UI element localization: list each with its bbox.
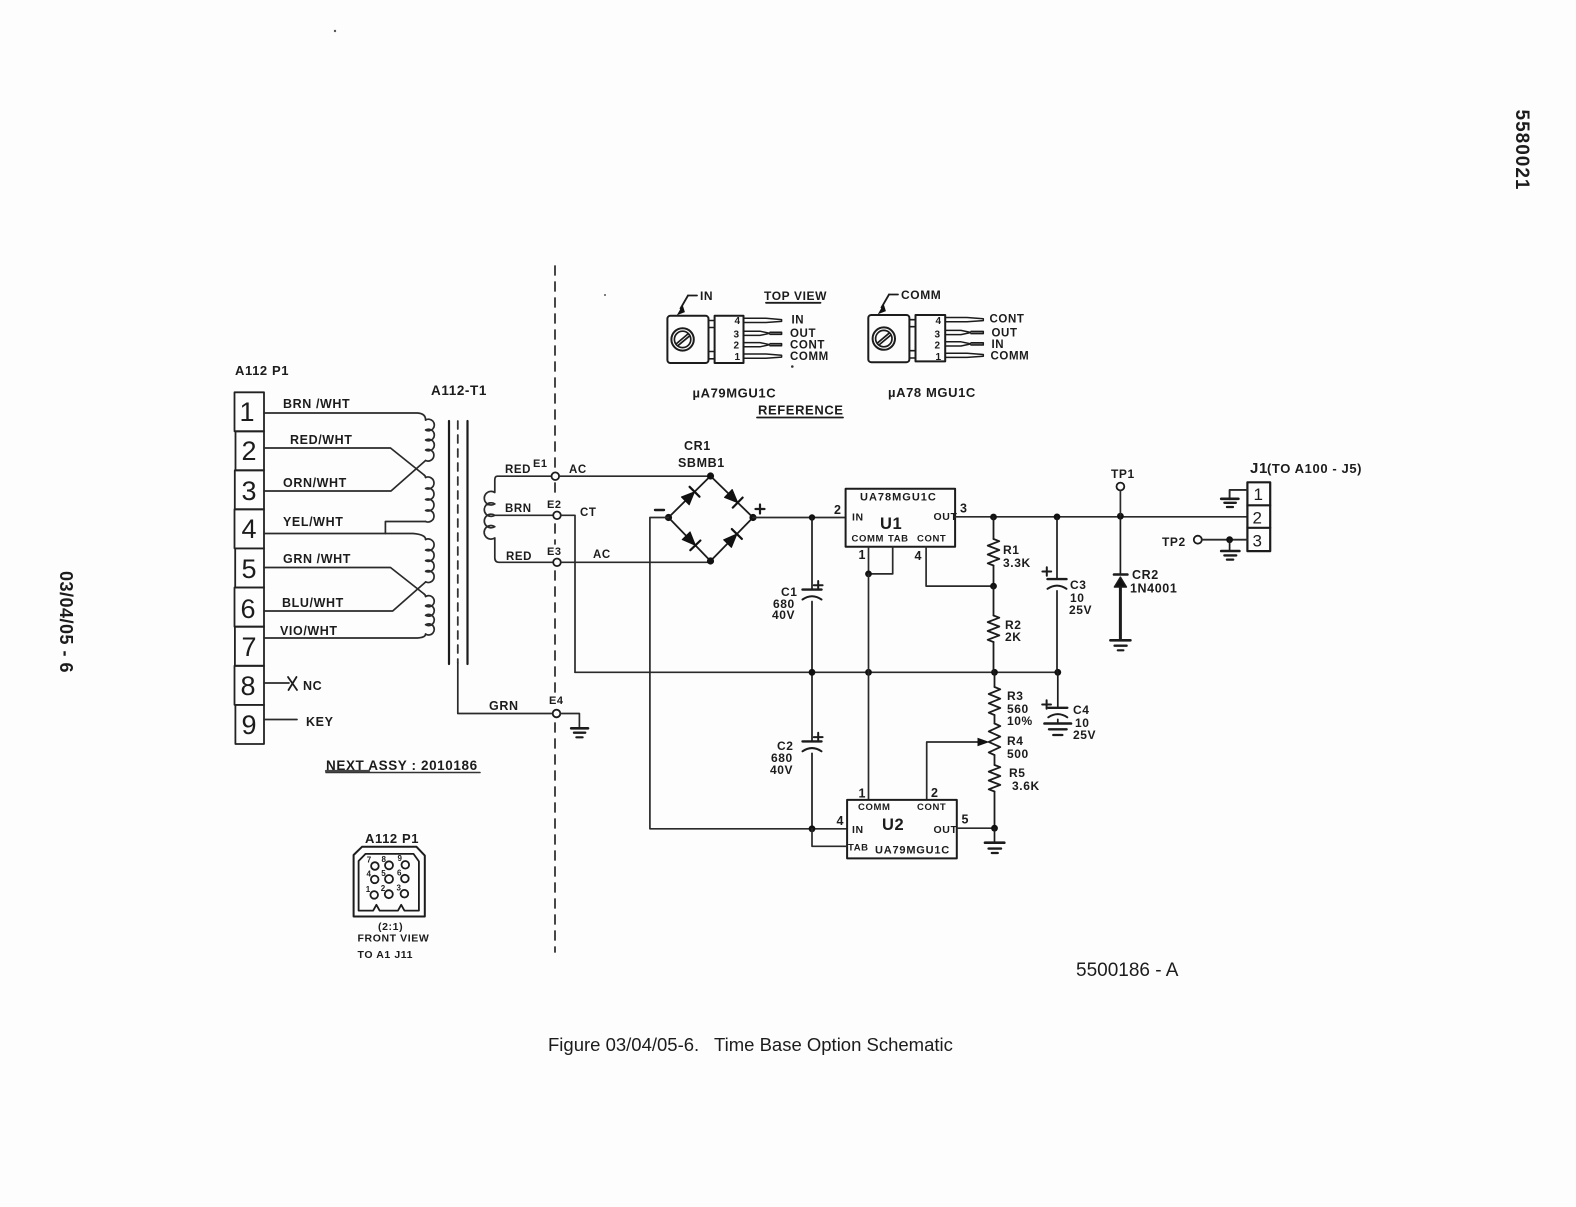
svg-text:VIO/WHT: VIO/WHT bbox=[280, 624, 338, 638]
transformer T1 core dashed shield line bbox=[457, 421, 459, 663]
svg-text:5500186 - A: 5500186 - A bbox=[1076, 960, 1179, 981]
svg-text:TO A1 J11: TO A1 J11 bbox=[358, 949, 414, 961]
svg-text:µA78 MGU1C: µA78 MGU1C bbox=[888, 385, 976, 400]
svg-text:500: 500 bbox=[1007, 747, 1029, 761]
svg-text:1: 1 bbox=[859, 548, 867, 562]
label RED/WHT bbox=[290, 433, 353, 447]
junction dots on output rail bbox=[990, 513, 1124, 521]
svg-text:6: 6 bbox=[240, 594, 255, 624]
svg-text:R4: R4 bbox=[1007, 734, 1024, 748]
svg-text:3.6K: 3.6K bbox=[1012, 779, 1040, 793]
wire transformer shield GRN to E4 bbox=[458, 663, 553, 714]
svg-text:NC: NC bbox=[303, 679, 322, 693]
test point TP2 bbox=[1194, 536, 1202, 544]
terminal E3 bbox=[553, 559, 561, 567]
junction dot U1 COMM/TAB bbox=[865, 571, 872, 578]
U2 pin number 5 bbox=[962, 813, 970, 827]
uA79 pin 1 (COMM) blade bbox=[744, 354, 782, 358]
svg-text:E4: E4 bbox=[549, 695, 564, 707]
svg-text:OUT: OUT bbox=[992, 328, 1018, 340]
TO-220 package uA78MGU1C: COMM callout bbox=[878, 288, 942, 314]
svg-text:J1: J1 bbox=[1250, 460, 1268, 477]
terminal E4 bbox=[553, 710, 561, 718]
svg-text:1: 1 bbox=[1254, 485, 1264, 504]
wire pin9 stub KEY bbox=[264, 719, 297, 721]
svg-text:1N4001: 1N4001 bbox=[1130, 582, 1177, 596]
bridge CR1 diode upper-left bbox=[681, 487, 699, 505]
R4 wiper arrow from U2 CONT bbox=[927, 742, 979, 800]
wire J1 pin 1 to ground bbox=[1230, 490, 1248, 499]
U2 TAB tie wire bbox=[812, 829, 847, 847]
svg-text:U1: U1 bbox=[880, 515, 902, 533]
minus sign at bridge bbox=[655, 509, 664, 511]
svg-text:C4: C4 bbox=[1073, 703, 1090, 717]
ground at CR2 bbox=[1110, 640, 1130, 650]
svg-text:YEL/WHT: YEL/WHT bbox=[283, 515, 343, 529]
svg-text:IN: IN bbox=[992, 339, 1005, 351]
svg-text:CONT: CONT bbox=[917, 534, 946, 545]
svg-text:3: 3 bbox=[241, 476, 256, 506]
ground at J1 pin 3 bbox=[1221, 540, 1239, 560]
label BRN (E2 lead) bbox=[505, 503, 532, 515]
label (2:1) bbox=[378, 921, 403, 933]
svg-text:OUT: OUT bbox=[934, 824, 958, 836]
wire secondary top RED to E1 bbox=[498, 475, 552, 477]
wire pin1 BRN/WHT to transformer primary winding 1 top bbox=[264, 413, 426, 420]
connector J1 body bbox=[1247, 482, 1270, 551]
no-connect X mark pin8 bbox=[288, 677, 297, 690]
capacitor C2 bbox=[803, 672, 823, 829]
transformer T1 core right line bbox=[466, 421, 468, 664]
label GRN bbox=[489, 699, 519, 713]
svg-text:CT: CT bbox=[580, 507, 597, 519]
svg-text:1: 1 bbox=[859, 787, 867, 801]
svg-text:UA78MGU1C: UA78MGU1C bbox=[860, 492, 937, 504]
label uA78MGU1C bbox=[888, 385, 976, 400]
transformer T1 primary winding 2 bbox=[426, 477, 434, 522]
transformer T1 core left line bbox=[448, 421, 450, 664]
uA79 pin 4 (IN) blade bbox=[744, 318, 782, 322]
svg-text:8: 8 bbox=[240, 671, 255, 701]
wire bridge plus node to U1 IN (DC rail) bbox=[753, 517, 846, 519]
svg-text:TP1: TP1 bbox=[1111, 467, 1135, 481]
svg-text:CR1: CR1 bbox=[684, 439, 711, 453]
svg-text:5: 5 bbox=[241, 554, 256, 584]
svg-text:GRN: GRN bbox=[489, 699, 519, 713]
svg-text:4: 4 bbox=[735, 316, 741, 327]
svg-text:E1: E1 bbox=[533, 458, 548, 470]
svg-text:25V: 25V bbox=[1069, 603, 1092, 617]
wire secondary center tap BRN to E2 bbox=[495, 514, 553, 516]
svg-text:CONT: CONT bbox=[990, 314, 1025, 326]
svg-text:2: 2 bbox=[241, 436, 256, 466]
label ORN/WHT bbox=[283, 476, 347, 490]
uA79 tab with screw hole bbox=[667, 316, 708, 363]
label NEXT ASSY : 2010186 (underlined) bbox=[326, 758, 480, 773]
uA79 pin 3 (OUT) blade bbox=[744, 331, 782, 335]
svg-text:1: 1 bbox=[735, 352, 741, 363]
uA78 pin 2 (IN) blade bbox=[945, 342, 983, 346]
wire pin5 GRN/WHT with diagonal to winding 4 top bbox=[264, 568, 426, 597]
uA78 body bbox=[916, 315, 946, 361]
diode CR2 1N4001 bbox=[1114, 516, 1127, 639]
svg-text:(2:1): (2:1) bbox=[378, 921, 403, 933]
wire U1 COMM down to U2 COMM (pin 1) bbox=[868, 574, 870, 800]
resistor R4 500 (pot) bbox=[989, 715, 1001, 755]
svg-text:UA79MGU1C: UA79MGU1C bbox=[875, 845, 950, 857]
ground at J1 pin 1 bbox=[1221, 499, 1238, 507]
wire bridge minus node down to U2 IN bbox=[650, 518, 847, 829]
wire secondary bottom RED to E3 bbox=[499, 561, 553, 563]
label E2 bbox=[547, 499, 562, 511]
wire pin3 ORN/WHT with diagonal to winding 1 bottom bbox=[264, 461, 426, 492]
svg-text:7: 7 bbox=[367, 856, 372, 865]
U1 pin number 2 bbox=[834, 503, 842, 517]
svg-text:3.3K: 3.3K bbox=[1003, 556, 1031, 570]
stray dot below uA79 pins bbox=[791, 365, 794, 368]
label E3 bbox=[547, 546, 562, 558]
svg-text:A112 P1: A112 P1 bbox=[365, 831, 419, 846]
TO-220 package uA79MGU1C: IN callout bbox=[677, 289, 713, 315]
label REFERENCE (underlined) bbox=[757, 403, 844, 418]
transformer T1 winding3 top corner from center tap bbox=[385, 534, 425, 540]
svg-text:TAB: TAB bbox=[848, 843, 869, 854]
junction dot R1/R2/CONT bbox=[990, 583, 997, 590]
svg-text:3: 3 bbox=[935, 329, 941, 340]
bridge rectifier CR1 diamond bbox=[669, 476, 754, 561]
svg-text:SBMB1: SBMB1 bbox=[678, 456, 725, 470]
junction dot U2 IN / C2 bottom bbox=[809, 825, 816, 832]
label TO A1 J11 bbox=[358, 949, 414, 961]
svg-text:4: 4 bbox=[936, 316, 942, 327]
svg-text:A112-T1: A112-T1 bbox=[431, 383, 487, 398]
U2 designator bbox=[882, 816, 904, 834]
uA79 pin labels bbox=[790, 315, 829, 364]
label BLU/WHT bbox=[282, 596, 344, 610]
svg-text:Figure 03/04/05-6.: Figure 03/04/05-6. bbox=[548, 1034, 699, 1055]
svg-text:40V: 40V bbox=[772, 608, 795, 622]
connector J1 label bbox=[1250, 460, 1362, 477]
U1 CONT pin 4 wire to R1/R2 junction bbox=[926, 547, 993, 586]
label R5 3.6K bbox=[1009, 766, 1040, 793]
svg-text:10%: 10% bbox=[1007, 714, 1033, 728]
svg-text:8: 8 bbox=[382, 855, 387, 864]
svg-text:TAB: TAB bbox=[888, 534, 909, 545]
sheet number 5580021 (vertical) bbox=[1511, 110, 1532, 191]
wire E4 to ground bbox=[560, 714, 579, 728]
junction dots on common rail bbox=[809, 669, 1062, 676]
svg-text:4: 4 bbox=[837, 814, 845, 828]
transformer T1 primary winding 3 bbox=[426, 539, 434, 583]
svg-text:µA79MGU1C: µA79MGU1C bbox=[693, 386, 777, 401]
svg-text:BRN: BRN bbox=[505, 503, 532, 515]
svg-text:5580021: 5580021 bbox=[1511, 110, 1532, 191]
front-view connector pin digits bbox=[366, 854, 403, 894]
svg-text:IN: IN bbox=[792, 315, 805, 327]
svg-text:2: 2 bbox=[935, 341, 941, 352]
stray speck near top view bbox=[604, 294, 606, 296]
uA78 pin 3 (OUT) blade bbox=[945, 330, 983, 334]
wire pin4 YEL/WHT to center-tap jog bbox=[264, 522, 426, 534]
label GRN/WHT bbox=[283, 552, 351, 566]
svg-text:AC: AC bbox=[569, 464, 587, 476]
uA78 pin 1 (COMM) blade bbox=[945, 353, 983, 357]
svg-text:COMM: COMM bbox=[901, 288, 941, 302]
resistor R1 3.3K bbox=[988, 517, 1000, 586]
U2 pin number 1 bbox=[859, 787, 867, 801]
regulator U2 UA79MGU1C box bbox=[847, 800, 957, 859]
label CR2 bbox=[1132, 568, 1159, 582]
front-view connector pin holes 3x3 bbox=[370, 861, 409, 899]
connector A112 P1 body (9-pin) bbox=[235, 392, 265, 744]
label C1 680 40V bbox=[772, 585, 798, 622]
label YEL/WHT bbox=[283, 515, 343, 529]
J1 pin numbers bbox=[1253, 485, 1264, 551]
svg-text:3: 3 bbox=[397, 884, 402, 893]
svg-text:CONT: CONT bbox=[790, 340, 825, 352]
label NC bbox=[303, 679, 322, 693]
svg-text:2: 2 bbox=[1253, 509, 1263, 528]
wire pin7 VIO/WHT from winding 4 bottom bbox=[264, 634, 426, 638]
svg-text:25V: 25V bbox=[1073, 728, 1096, 742]
svg-text:TP2: TP2 bbox=[1162, 535, 1186, 549]
bridge CR1 diode lower-right bbox=[724, 529, 742, 547]
stray speck top bbox=[334, 30, 336, 32]
U2 OUT wire to R5 bottom bbox=[957, 827, 995, 829]
figure caption bbox=[548, 1034, 953, 1055]
drawing number 5500186 - A bbox=[1076, 960, 1179, 981]
U1 pin number 4 bbox=[915, 549, 923, 563]
ground at U2 OUT bbox=[985, 828, 1004, 853]
svg-text:TOP VIEW: TOP VIEW bbox=[764, 289, 827, 303]
svg-text:3: 3 bbox=[734, 329, 740, 340]
wire TP2 to J1 pin 3 bbox=[1202, 539, 1248, 541]
svg-text:1: 1 bbox=[366, 885, 371, 894]
svg-text:E2: E2 bbox=[547, 499, 562, 511]
label E4 bbox=[549, 695, 564, 707]
label 1N4001 bbox=[1130, 582, 1177, 596]
svg-text:1: 1 bbox=[239, 397, 254, 427]
transformer A112-T1 label bbox=[431, 383, 487, 398]
wire E2 CT to common rail bbox=[561, 515, 575, 672]
plus sign at bridge bbox=[756, 505, 765, 514]
svg-text:CONT: CONT bbox=[917, 802, 946, 813]
label TP2 bbox=[1162, 535, 1186, 549]
bridge CR1 diode upper-right bbox=[725, 490, 743, 508]
wire pin8 stub NC bbox=[264, 682, 289, 684]
ground at E4 bbox=[571, 728, 588, 737]
label CR1 bbox=[684, 439, 711, 453]
svg-text:COMM: COMM bbox=[858, 802, 890, 813]
front-view connector inner shell with key notches bbox=[359, 854, 419, 911]
label E1 bbox=[533, 458, 548, 470]
svg-text:COMM: COMM bbox=[790, 351, 829, 363]
svg-text:2: 2 bbox=[734, 341, 740, 352]
svg-text:C3: C3 bbox=[1070, 578, 1087, 592]
label BRN/WHT bbox=[283, 397, 350, 411]
svg-text:9: 9 bbox=[398, 854, 403, 863]
svg-text:03/04/05 - 6: 03/04/05 - 6 bbox=[56, 571, 76, 673]
output rail U1 OUT to J1 pin 2 bbox=[955, 516, 1247, 518]
svg-text:Time Base Option Schematic: Time Base Option Schematic bbox=[714, 1034, 953, 1055]
svg-text:GRN /WHT: GRN /WHT bbox=[283, 552, 351, 566]
resistor R3 560 10% bbox=[989, 672, 1001, 715]
connector A112 P1 pin numbers 1-9 bbox=[239, 397, 256, 740]
svg-text:OUT: OUT bbox=[934, 511, 958, 523]
U1 TAB tie wire bbox=[869, 547, 893, 574]
label KEY bbox=[306, 715, 334, 729]
svg-text:OUT: OUT bbox=[790, 328, 816, 340]
test point TP1 bbox=[1117, 483, 1125, 517]
label AC (E3) bbox=[593, 549, 611, 561]
junction dot TP2/ground bbox=[1226, 536, 1233, 543]
svg-text:40V: 40V bbox=[770, 763, 793, 777]
label R4 500 bbox=[1007, 734, 1029, 761]
svg-text:U2: U2 bbox=[882, 816, 904, 834]
svg-text:4: 4 bbox=[915, 549, 923, 563]
transformer T1 primary winding 1 bbox=[426, 419, 435, 461]
label uA79MGU1C bbox=[693, 386, 777, 401]
common rail (center-tap return) bbox=[575, 671, 1058, 673]
U1 designator bbox=[880, 515, 902, 533]
svg-text:5: 5 bbox=[381, 869, 386, 878]
front-view connector label A112 P1 bbox=[365, 831, 419, 846]
capacitor C4 bbox=[1042, 672, 1067, 723]
svg-text:2: 2 bbox=[931, 786, 939, 800]
uA78 neck bumps bbox=[909, 320, 915, 358]
label SBMB1 bbox=[678, 456, 725, 470]
transformer T1 secondary winding with center tap bbox=[484, 476, 499, 562]
svg-text:6: 6 bbox=[397, 868, 402, 877]
transformer T1 primary winding 4 bbox=[426, 596, 435, 635]
wire E3 AC to bridge bottom node bbox=[561, 561, 708, 563]
svg-text:KEY: KEY bbox=[306, 715, 334, 729]
U2 pin number 2 bbox=[931, 786, 939, 800]
ground at C4 bbox=[1045, 724, 1072, 736]
svg-text:R5: R5 bbox=[1009, 766, 1026, 780]
svg-text:FRONT VIEW: FRONT VIEW bbox=[358, 933, 430, 945]
bridge node dots bbox=[665, 472, 757, 564]
uA79 neck bumps bbox=[709, 321, 715, 359]
connector A112 P1 label bbox=[235, 363, 289, 378]
svg-text:3: 3 bbox=[960, 502, 968, 516]
uA78 pin 4 (CONT) blade bbox=[945, 318, 983, 322]
U1 internal labels bbox=[852, 492, 958, 545]
svg-text:CR2: CR2 bbox=[1132, 568, 1159, 582]
svg-text:IN: IN bbox=[700, 289, 713, 303]
svg-text:COMM: COMM bbox=[991, 351, 1030, 363]
uA79 body bbox=[715, 316, 744, 363]
label C2 680 40V bbox=[770, 739, 794, 777]
uA78 pin labels bbox=[990, 314, 1030, 363]
svg-text:RED: RED bbox=[505, 464, 531, 476]
label R3 560 10% bbox=[1007, 689, 1033, 728]
svg-text:BLU/WHT: BLU/WHT bbox=[282, 596, 344, 610]
sheet number 03/04/05 - 6 (vertical) bbox=[56, 571, 76, 673]
label R1 3.3K bbox=[1003, 543, 1031, 570]
label R2 2K bbox=[1005, 618, 1022, 644]
svg-text:COMM: COMM bbox=[852, 534, 884, 545]
svg-text:4: 4 bbox=[241, 514, 256, 544]
svg-text:BRN /WHT: BRN /WHT bbox=[283, 397, 350, 411]
uA79 pin numbers 4 3 2 1 bbox=[734, 316, 741, 363]
resistor R2 2K bbox=[988, 586, 1000, 672]
label AC (E1) bbox=[569, 464, 587, 476]
svg-text:5: 5 bbox=[962, 813, 970, 827]
resistor R5 3.6K bbox=[989, 755, 1001, 828]
svg-text:IN: IN bbox=[852, 824, 864, 836]
capacitor C3 bbox=[1042, 517, 1066, 672]
regulator U1 UA78MGU1C box bbox=[846, 489, 956, 547]
node C1 top junction bbox=[809, 514, 815, 520]
label C3 10 25V bbox=[1069, 578, 1092, 617]
wire E1 AC to bridge top node bbox=[559, 475, 707, 477]
svg-text:(TO A100 - J5): (TO A100 - J5) bbox=[1267, 461, 1362, 476]
junction dot U2 OUT / R5 bbox=[991, 825, 998, 832]
U1 pin number 3 bbox=[960, 502, 968, 516]
svg-text:E3: E3 bbox=[547, 546, 562, 558]
front-view connector outer shell bbox=[354, 847, 425, 917]
label VIO/WHT bbox=[280, 624, 338, 638]
capacitor C1 bbox=[803, 518, 823, 673]
terminal E2 bbox=[553, 512, 561, 520]
svg-text:A112 P1: A112 P1 bbox=[235, 363, 289, 378]
svg-text:RED: RED bbox=[506, 551, 532, 563]
svg-text:1: 1 bbox=[936, 352, 942, 363]
U2 pin number 4 bbox=[837, 814, 845, 828]
svg-text:4: 4 bbox=[367, 869, 372, 878]
U1 COMM pin 1 wire bbox=[868, 547, 870, 574]
svg-text:7: 7 bbox=[241, 632, 256, 662]
svg-text:2: 2 bbox=[381, 884, 386, 893]
svg-text:3: 3 bbox=[1253, 532, 1263, 551]
svg-text:AC: AC bbox=[593, 549, 611, 561]
svg-text:R1: R1 bbox=[1003, 543, 1020, 557]
uA78 pin numbers 4 3 2 1 bbox=[935, 316, 942, 363]
svg-text:2K: 2K bbox=[1005, 630, 1022, 644]
svg-text:RED/WHT: RED/WHT bbox=[290, 433, 353, 447]
bridge CR1 diode lower-left bbox=[682, 532, 700, 550]
label TOP VIEW (underlined) bbox=[764, 289, 827, 303]
label CT bbox=[580, 507, 597, 519]
label RED (E3 lead) bbox=[506, 551, 532, 563]
uA79 pin 2 (CONT) blade bbox=[744, 343, 782, 347]
dashed assembly fold line bbox=[554, 266, 556, 952]
svg-text:R3: R3 bbox=[1007, 689, 1024, 703]
svg-text:ORN/WHT: ORN/WHT bbox=[283, 476, 347, 490]
uA78 tab with screw hole bbox=[868, 315, 909, 362]
U1 pin number 1 bbox=[859, 548, 867, 562]
wire pin2 RED/WHT with phasing diagonal to winding 2 top bbox=[264, 448, 426, 478]
svg-text:9: 9 bbox=[241, 710, 256, 740]
label FRONT VIEW bbox=[358, 933, 430, 945]
label TP1 bbox=[1111, 467, 1135, 481]
svg-text:IN: IN bbox=[852, 512, 864, 524]
terminal E1 bbox=[552, 472, 560, 480]
svg-text:REFERENCE: REFERENCE bbox=[758, 403, 844, 418]
label RED (E1 lead) bbox=[505, 464, 531, 476]
label C4 10 25V bbox=[1073, 703, 1096, 742]
wire pin6 BLU/WHT with diagonal to winding 3 bottom bbox=[264, 582, 426, 611]
U2 internal labels bbox=[848, 802, 957, 857]
svg-text:2: 2 bbox=[834, 503, 842, 517]
